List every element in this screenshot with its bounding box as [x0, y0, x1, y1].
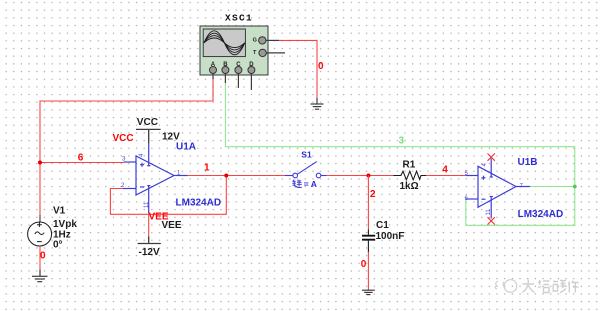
watermark text (CJK) [523, 280, 579, 293]
U1B no-connect X on VCC pin [488, 153, 495, 160]
svg-text:= A: = A [304, 179, 317, 189]
scope terminal B [222, 62, 229, 83]
svg-text:B: B [223, 62, 228, 68]
svg-text:C: C [236, 62, 241, 68]
wire net 4: R1 to U1B noninverting input [426, 175, 466, 177]
svg-text:U1B: U1B [518, 157, 538, 168]
svg-text:R1: R1 [403, 159, 416, 170]
wire net 6: scope channel A down, left and to U1A noninverting input; branch to V1 [40, 79, 213, 215]
svg-text:V1: V1 [53, 205, 66, 216]
junction node 6 [38, 161, 42, 165]
svg-text:2: 2 [370, 189, 376, 200]
ground (C1) [362, 289, 375, 294]
wire net 1: U1A output to S1 with feedback to inverting input [110, 176, 285, 215]
svg-text:LM324AD: LM324AD [518, 209, 564, 220]
svg-text:S1: S1 [301, 149, 312, 159]
op-amp U1B (LM324AD section B) [466, 159, 530, 219]
svg-text:VCC: VCC [113, 133, 134, 144]
switch S1 [285, 162, 327, 178]
junction node 2 [366, 174, 370, 178]
ground (scope G) [311, 98, 324, 109]
svg-text:VCC: VCC [137, 117, 158, 128]
wire net VEE: U1A pin 11 to -12V supply [148, 213, 150, 237]
svg-text:0: 0 [40, 251, 46, 262]
svg-text:1: 1 [204, 162, 210, 173]
svg-text:1kΩ: 1kΩ [400, 181, 419, 192]
svg-text:4: 4 [442, 164, 448, 175]
scope terminal C [235, 62, 242, 88]
U1B no-connect X on VEE pin [488, 217, 495, 224]
scope terminal T [253, 49, 285, 56]
op-amp U1A (LM324AD section A) [123, 143, 188, 213]
junction node 3 (green) [573, 185, 577, 189]
svg-text:XSC1: XSC1 [225, 13, 253, 24]
S1 key label glyph (CJK) [292, 180, 302, 188]
svg-text:VEE: VEE [162, 220, 182, 231]
wire net 0: V1 bottom to ground [39, 246, 41, 270]
svg-text:11: 11 [144, 201, 150, 208]
junction node 1 [224, 174, 228, 178]
svg-text:3: 3 [399, 136, 405, 147]
oscilloscope XSC1 body [200, 26, 268, 75]
svg-text:G: G [253, 38, 257, 44]
watermark logo [495, 280, 517, 293]
svg-text:100nF: 100nF [376, 231, 405, 242]
ground (V1) [32, 270, 48, 282]
svg-text:U1A: U1A [176, 142, 196, 153]
svg-text:0: 0 [361, 259, 367, 270]
svg-text:-12V: -12V [139, 247, 160, 258]
svg-text:C1: C1 [376, 220, 389, 231]
svg-text:0: 0 [318, 61, 324, 72]
svg-text:LM324AD: LM324AD [176, 198, 222, 209]
scope terminal A [210, 62, 217, 79]
svg-text:11: 11 [486, 209, 492, 216]
wire: V1 top lead (black stub) [39, 215, 41, 223]
svg-text:0°: 0° [53, 239, 63, 250]
wire net 3 (green): scope channel B down and right, around U1B to inverting input [225, 83, 574, 225]
AC voltage source V1 [28, 222, 52, 246]
VCC power symbol [136, 129, 161, 143]
wire net 2: node down to C1 top [367, 176, 369, 230]
VEE power symbol [138, 237, 161, 244]
svg-text:A: A [211, 62, 216, 68]
wire net 2: S1 to R1 [327, 175, 394, 177]
capacitor C1 [362, 230, 375, 253]
wire net 3 (green): U1B output stub [530, 186, 575, 188]
svg-text:6: 6 [78, 152, 84, 163]
wire net 0: C1 bottom to ground [367, 252, 369, 289]
scope terminal G [253, 37, 279, 44]
resistor R1 [393, 171, 426, 180]
scope terminal D [248, 62, 255, 90]
wire net 0: scope G terminal to ground [279, 40, 317, 98]
svg-text:D: D [249, 62, 254, 68]
